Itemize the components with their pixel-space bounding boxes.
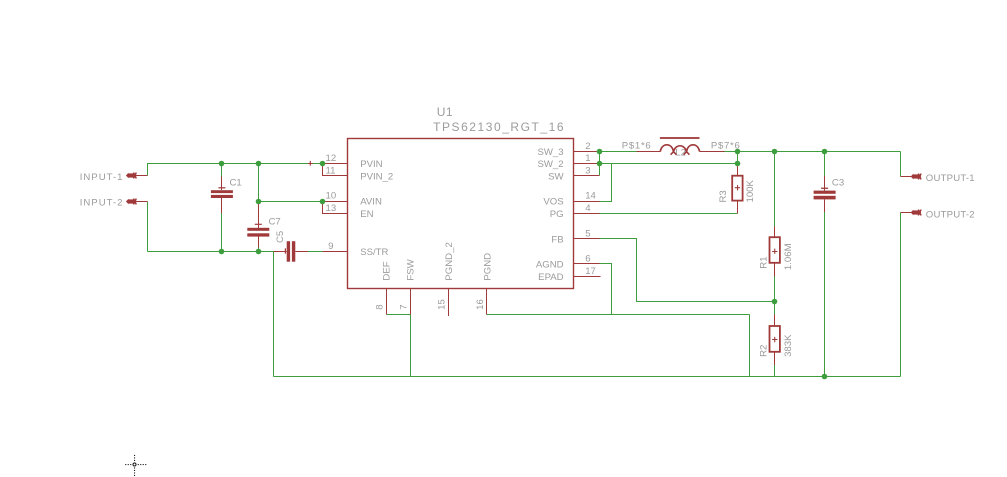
svg-text:6: 6 [585,253,590,264]
junction L2 out top [735,149,741,155]
junction pin1 [597,161,603,167]
wire PGND net run [487,314,750,316]
svg-text:16: 16 [475,299,486,310]
wire C3 top green [824,152,826,177]
junction pin2 [597,149,603,155]
svg-text:383K: 383K [783,334,794,357]
pin 6 AGND stub [574,263,600,265]
capacitor C3 [814,188,836,200]
svg-text:R2: R2 [758,345,769,357]
wire PGND down to rail [749,315,751,377]
pin 11 stub [323,164,348,176]
wire R1 top green [774,152,776,227]
svg-text:DEF: DEF [382,261,393,280]
svg-text:1: 1 [585,153,590,164]
R1 top lead [774,226,776,237]
svg-text:OUTPUT-2: OUTPUT-2 [926,210,975,221]
pin 2 stub [574,151,600,153]
wire VOS link [600,164,612,202]
junction C1 bottom [219,249,225,255]
svg-text:4: 4 [585,203,591,214]
svg-text:R3: R3 [718,190,729,202]
svg-text:TPS62130_RGT_16: TPS62130_RGT_16 [433,120,565,134]
svg-text:C7: C7 [269,217,281,228]
wire top-left rail VIN [148,164,323,176]
C7 bottom lead [258,237,260,248]
inductor L2 [660,137,700,155]
wire AVIN branch horizontal [259,201,323,203]
svg-text:PVIN_2: PVIN_2 [360,171,393,182]
capacitor C7 [247,224,269,237]
svg-text:U1: U1 [437,105,453,119]
junction C3 bottom rail [822,374,828,380]
wire C3 bottom green [824,212,826,376]
R1 bottom lead [774,263,776,277]
svg-text:R1: R1 [758,256,769,268]
pin 4 PG stub [574,213,600,215]
junction C7 bottom [256,249,262,255]
junction R3 top [735,161,741,167]
svg-text:INPUT-2: INPUT-2 [80,197,124,208]
OUTPUT-2 stub [901,212,912,214]
connector OUTPUT-1 arrow [911,174,921,180]
junction R1 top [772,149,778,155]
svg-text:11: 11 [326,165,336,176]
wire OUTPUT-2 vertical [900,213,902,377]
pin 7 FSW stub [410,289,412,315]
svg-text:OUTPUT-1: OUTPUT-1 [926,173,975,184]
svg-text:FB: FB [551,234,563,245]
wire R2 bottom green [774,365,776,377]
pin 5 FB stub [574,238,600,240]
junction pin12 [320,161,326,167]
svg-text:FSW: FSW [406,258,417,280]
capacitor C1 [211,187,233,198]
C5 left lead [274,251,287,253]
wire AGND link [600,264,612,315]
R2 top lead [774,315,776,327]
svg-text:10: 10 [326,191,337,202]
pin 13 stub [323,202,348,214]
connector INPUT-1 arrow [126,173,136,179]
wire INPUT-2 left vertical [147,202,149,252]
wire DEF-FSW link [387,314,411,316]
junction FB divider [772,299,778,305]
svg-text:8: 8 [375,304,386,309]
svg-text:AGND: AGND [536,259,564,270]
svg-text:C3: C3 [832,177,844,188]
wire bottom GND rail [274,376,901,378]
wire GND drop left [273,252,275,377]
wire SW to inductor [600,151,637,153]
pin 3 stub [574,175,600,177]
OUTPUT-1 stub [901,176,912,178]
wire inductor out to output rail [725,151,901,153]
svg-text:PGND: PGND [482,253,493,281]
pin 10 stub [323,201,348,203]
wire INPUT-2 stub [136,201,147,203]
C1 top lead [221,177,223,191]
svg-text:EPAD: EPAD [538,272,563,283]
svg-text:13: 13 [326,203,337,214]
resistor R2 [770,326,780,352]
wire C7 bottom green [258,248,260,252]
svg-text:7: 7 [399,304,410,309]
connector INPUT-2 arrow [126,199,136,205]
svg-text:12: 12 [326,153,337,164]
C7 top lead [258,203,260,228]
junction branch top [256,161,262,167]
svg-text:15: 15 [437,299,448,310]
R3 top lead [737,164,739,176]
svg-text:PVIN: PVIN [360,159,382,170]
svg-text:14: 14 [585,191,596,202]
svg-text:INPUT-1: INPUT-1 [80,172,124,183]
svg-text:P$7*6: P$7*6 [711,140,741,151]
junction C1 top [219,161,225,167]
svg-text:VOS: VOS [543,197,563,208]
pin 14 VOS stub [574,201,600,203]
pin 16 PGND stub [486,289,488,315]
inductor right lead [700,151,725,153]
pin 1 stub [574,163,600,165]
wire R1 bottom green [774,277,776,302]
sheet origin cross [125,455,146,476]
svg-text:C5: C5 [275,231,286,243]
svg-text:SS/TR: SS/TR [360,247,388,258]
wire branch vertical C7 [258,164,260,204]
C1 bottom lead [221,198,223,213]
resistor R1 [770,237,780,263]
wire C1 bottom lead green [221,213,223,252]
junction pin10 [320,199,326,205]
svg-text:PG: PG [550,209,564,220]
C3 top lead [824,176,826,190]
R3 bottom lead [737,201,739,214]
svg-text:100K: 100K [745,179,756,202]
svg-text:SW_2: SW_2 [537,159,563,170]
wire pin9 segment [308,251,323,253]
svg-text:17: 17 [585,266,596,277]
svg-text:SW: SW [548,171,564,182]
junction C3 top [822,149,828,155]
wire R2 top green [774,302,776,315]
svg-text:3: 3 [585,166,590,177]
inductor left lead [637,151,661,153]
pin 15 PGND_2 stub [448,289,450,317]
wire FSW down to rail [410,315,412,377]
connector OUTPUT-2 arrow [911,210,921,216]
U1 origin cross [308,161,313,166]
svg-text:2: 2 [585,141,590,152]
wire INPUT-1 stub [136,175,147,177]
svg-text:C1: C1 [230,177,242,188]
svg-text:5: 5 [585,228,590,239]
C5 right lead [295,251,308,253]
svg-text:EN: EN [360,209,373,220]
svg-text:P$1*6: P$1*6 [622,140,652,151]
pin 17 EPAD stub [574,276,601,278]
svg-text:AVIN: AVIN [360,197,382,208]
svg-text:SW_3: SW_3 [537,147,563,158]
resistor R3 [732,176,742,201]
wire node L out vertical [737,152,739,164]
svg-text:9: 9 [328,241,333,252]
svg-text:1.06M: 1.06M [783,243,794,270]
C3 bottom lead [824,199,826,212]
pin 12 stub [323,163,348,165]
R2 bottom lead [774,352,776,365]
wire bottom input GND run [148,251,274,253]
IC U1 TPS62130_RGT_16 body [348,139,574,289]
wire FB run [600,239,775,302]
junction AVIN branch [256,199,262,205]
svg-text:PGND_2: PGND_2 [444,242,455,280]
pin 8 DEF stub [386,289,388,315]
pin 9 stub [323,251,348,253]
wire C1 top lead green [221,164,223,177]
wire PG run [600,213,738,215]
wire SW node horizontal [600,163,738,165]
capacitor C5 series [285,241,296,262]
wire SW pins vertical [599,152,601,176]
wire OUTPUT-1 corner [900,152,902,177]
